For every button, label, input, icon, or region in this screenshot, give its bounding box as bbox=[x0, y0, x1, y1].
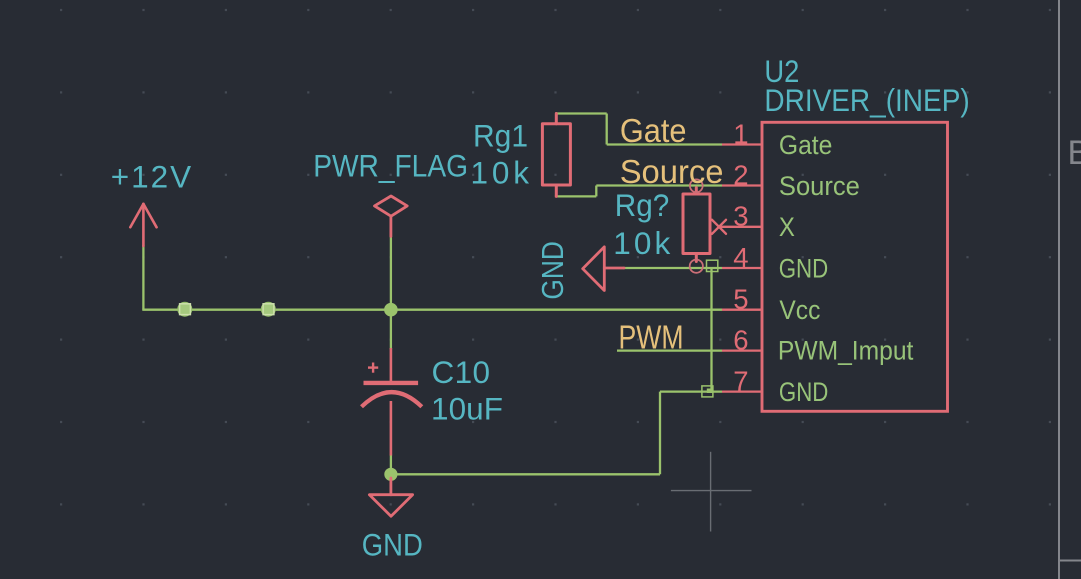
svg-text:C10: C10 bbox=[432, 354, 491, 390]
no-connect X at pin 3 bbox=[712, 220, 726, 234]
svg-text:5: 5 bbox=[733, 284, 748, 315]
wire: Source wire into pin 2 bbox=[596, 184, 722, 186]
svg-text:Source: Source bbox=[779, 171, 860, 201]
svg-text:10uF: 10uF bbox=[431, 391, 503, 427]
junction on rail at x=185 bbox=[177, 302, 192, 317]
wire: Rg1 top jog horizontal bbox=[555, 112, 607, 114]
svg-text:2: 2 bbox=[733, 159, 748, 190]
svg-text:GND: GND bbox=[536, 241, 570, 300]
pin 2 Source bbox=[722, 159, 860, 201]
svg-text:+12V: +12V bbox=[111, 158, 192, 194]
wire: vertical up to pin 7 level bbox=[659, 392, 661, 475]
svg-text:10k: 10k bbox=[613, 225, 670, 261]
svg-text:10k: 10k bbox=[471, 154, 530, 190]
junction at GND below C10 bbox=[384, 468, 397, 481]
wire: main horizontal Vcc rail bbox=[142, 309, 722, 311]
pin 1 Gate bbox=[722, 118, 832, 160]
svg-text:Source: Source bbox=[620, 154, 724, 191]
wire: Rg1 bottom jog vertical bbox=[595, 186, 597, 197]
wire: bottom horizontal from GND junction bbox=[391, 473, 660, 475]
svg-text:GND: GND bbox=[779, 377, 829, 407]
svg-text:Vcc: Vcc bbox=[779, 295, 820, 325]
resistor Rg1 bbox=[542, 114, 570, 197]
wire: Rg1 bottom jog horizontal bbox=[555, 195, 596, 197]
svg-text:4: 4 bbox=[733, 242, 748, 273]
wire: PWR_FLAG stem bbox=[390, 236, 392, 309]
svg-text:B: B bbox=[1068, 134, 1081, 172]
pin 7 GND bbox=[722, 365, 828, 406]
svg-text:PWM_Imput: PWM_Imput bbox=[778, 335, 914, 365]
PWR_FLAG symbol diamond bbox=[375, 196, 408, 236]
IC U2 body bbox=[762, 122, 948, 411]
wire: vertical GND link pin4 to pin7 bbox=[710, 268, 712, 392]
dangling wire square near pin 4 bbox=[707, 260, 718, 271]
svg-text:Rg1: Rg1 bbox=[473, 117, 528, 153]
svg-text:GND: GND bbox=[362, 527, 423, 563]
wire: horizontal into pin 7 bbox=[660, 390, 722, 392]
wire: GND symbol to pin 4 bbox=[623, 267, 722, 269]
junction on rail at x=268 bbox=[261, 302, 276, 317]
svg-text:6: 6 bbox=[733, 324, 748, 355]
svg-text:PWM: PWM bbox=[619, 319, 684, 356]
svg-text:3: 3 bbox=[733, 201, 748, 232]
capacitor C10 bbox=[362, 348, 422, 456]
wire: rail to C10 top bbox=[390, 310, 392, 350]
pin 4 GND bbox=[722, 242, 828, 284]
svg-text:1: 1 bbox=[733, 118, 748, 149]
svg-text:GND: GND bbox=[779, 253, 829, 283]
wire: Gate wire into pin 1 bbox=[607, 143, 722, 145]
wire: Rg1 top jog vertical bbox=[606, 114, 608, 145]
pin 6 PWM_Imput bbox=[722, 324, 914, 365]
resistor Rg? bbox=[683, 188, 710, 262]
ground symbol sideways at pin 4 bbox=[583, 247, 624, 291]
svg-text:X: X bbox=[779, 212, 795, 242]
wire: C10 bottom to GND junction bbox=[390, 455, 392, 475]
pin 5 Vcc bbox=[722, 284, 820, 326]
svg-text:Rg?: Rg? bbox=[615, 187, 670, 223]
dangling pin circle Rg? top bbox=[690, 179, 703, 192]
svg-text:Gate: Gate bbox=[779, 130, 833, 160]
wire: PWM wire into pin 6 bbox=[617, 349, 722, 351]
junction at PWR_FLAG stem bbox=[384, 303, 398, 317]
svg-text:PWR_FLAG: PWR_FLAG bbox=[313, 148, 468, 184]
power symbol +12V arrow bbox=[130, 204, 156, 246]
svg-text:Gate: Gate bbox=[620, 113, 687, 150]
dangling wire square near pin 7 bbox=[702, 386, 713, 397]
wire: +12V vertical drop bbox=[142, 245, 144, 310]
ground symbol below C10 bbox=[369, 478, 412, 516]
pin 3 X bbox=[719, 201, 795, 242]
dangling pin circle Rg? bottom bbox=[690, 260, 703, 273]
svg-text:7: 7 bbox=[733, 365, 748, 396]
cursor crosshair bbox=[671, 452, 752, 532]
svg-text:DRIVER_(INEP): DRIVER_(INEP) bbox=[764, 82, 969, 118]
